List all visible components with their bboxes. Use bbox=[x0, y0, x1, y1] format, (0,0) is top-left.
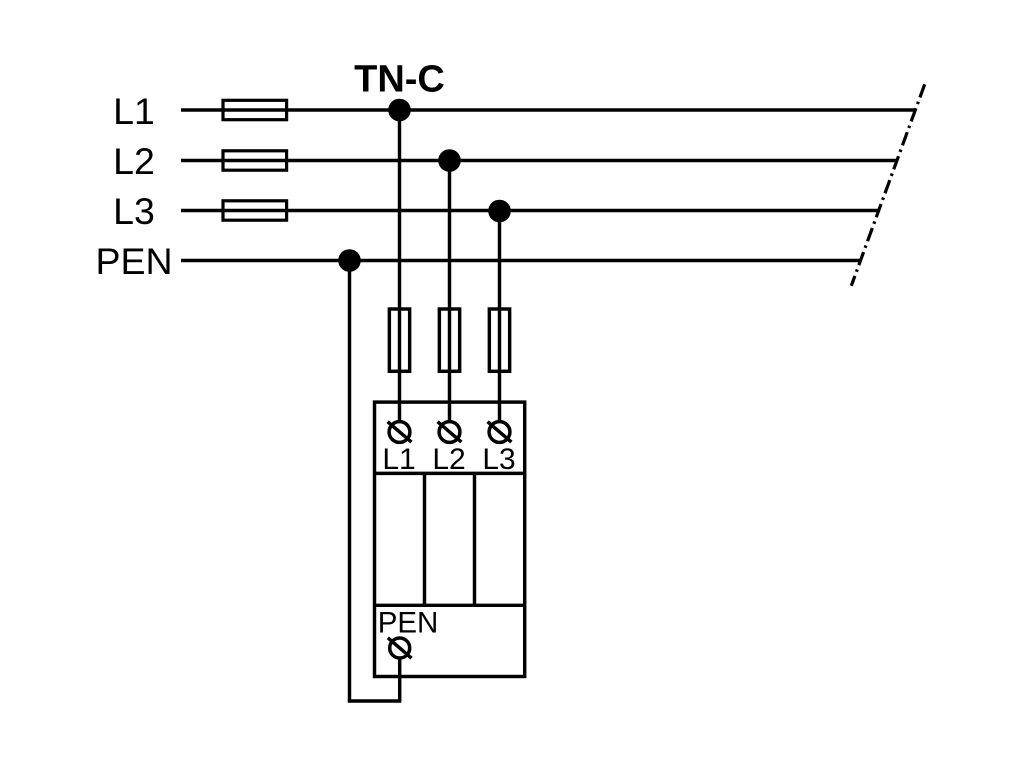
svg-text:L2: L2 bbox=[113, 140, 155, 182]
junction node PEN bbox=[338, 249, 361, 272]
svg-text:L1: L1 bbox=[113, 90, 155, 132]
svg-text:TN-C: TN-C bbox=[354, 58, 445, 100]
wire L1 bbox=[181, 108, 915, 111]
svg-text:L3: L3 bbox=[482, 443, 515, 476]
svg-text:L3: L3 bbox=[113, 190, 155, 232]
svg-text:PEN: PEN bbox=[378, 606, 439, 639]
terminal L1 (screw) bbox=[388, 422, 412, 443]
junction node L2 bbox=[438, 149, 461, 172]
SPD box outline bbox=[375, 402, 525, 676]
bus continuation mark (dash-dot break line) bbox=[851, 84, 924, 285]
terminal L2 (screw) bbox=[438, 422, 462, 443]
svg-text:PEN: PEN bbox=[95, 240, 172, 282]
wire L2 drop to SPD bbox=[448, 161, 451, 421]
SPD inner divider (above PEN section) bbox=[375, 604, 525, 607]
wire L1 drop to SPD bbox=[398, 110, 401, 421]
SPD module divider right bbox=[473, 473, 476, 605]
wire PEN bbox=[181, 259, 861, 262]
fuse F6 (vertical, L3 branch) bbox=[489, 309, 509, 371]
wire PEN junction drop (left vertical) bbox=[348, 261, 351, 703]
wire bottom horizontal run bbox=[348, 699, 401, 702]
terminal PEN (screw) bbox=[388, 638, 412, 658]
wire PEN terminal to bottom bbox=[398, 658, 401, 701]
wire L2 bbox=[181, 159, 897, 162]
fuse F2 (L2 line) bbox=[223, 151, 287, 170]
junction node L3 bbox=[488, 200, 511, 223]
fuse F3 (L3 line) bbox=[223, 201, 287, 220]
SPD inner divider (below terminal labels) bbox=[375, 472, 525, 475]
fuse F4 (vertical, L1 branch) bbox=[389, 309, 409, 371]
junction node L1 bbox=[388, 99, 411, 122]
SPD module divider left bbox=[423, 473, 426, 605]
svg-text:L2: L2 bbox=[432, 443, 465, 476]
wire L3 bbox=[181, 209, 879, 212]
wire L3 drop to SPD bbox=[498, 211, 501, 421]
fuse F5 (vertical, L2 branch) bbox=[439, 309, 459, 371]
terminal L3 (screw) bbox=[488, 422, 512, 443]
fuse F1 (L1 line) bbox=[223, 100, 287, 119]
svg-text:L1: L1 bbox=[382, 443, 415, 476]
